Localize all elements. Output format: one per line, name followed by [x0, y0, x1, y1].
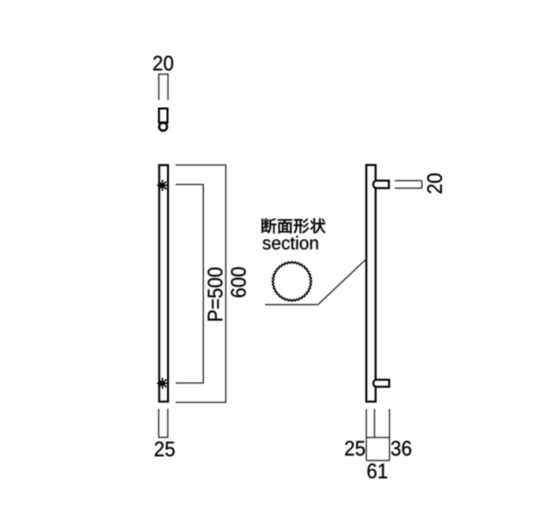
front view dimension 25 label — [155, 442, 175, 457]
side view top peg — [373, 181, 389, 189]
front view bottom screw mark — [157, 378, 168, 389]
dimension 600 lines — [176, 165, 226, 402]
section leader line — [265, 260, 365, 305]
dimension 600 label — [231, 267, 246, 297]
side view dimension 20 label — [427, 174, 442, 194]
front view top screw mark — [157, 180, 168, 191]
side view dimension 61 label — [368, 464, 388, 479]
dimension P=500 label — [208, 268, 223, 321]
side view handle bar — [366, 165, 375, 402]
plan view peg outline — [159, 109, 168, 123]
side view dimension 36 label — [391, 441, 411, 456]
section note kanji — [262, 218, 326, 233]
plan view dimension 20 label — [153, 56, 173, 71]
side view dimension 25 label — [345, 441, 365, 456]
side view bottom peg — [373, 380, 389, 387]
front view dimension 25 bracket — [159, 409, 168, 438]
plan view dimension 20 bracket — [159, 74, 168, 100]
dimension P=500 lines — [176, 185, 204, 384]
plan view bar cross-section circle — [159, 123, 167, 131]
section note english — [263, 236, 318, 250]
side view dimension 20 lines — [395, 181, 422, 189]
side view bottom dimension brackets — [366, 409, 389, 461]
front view handle bar — [159, 165, 168, 402]
section knurled circle — [272, 262, 311, 301]
